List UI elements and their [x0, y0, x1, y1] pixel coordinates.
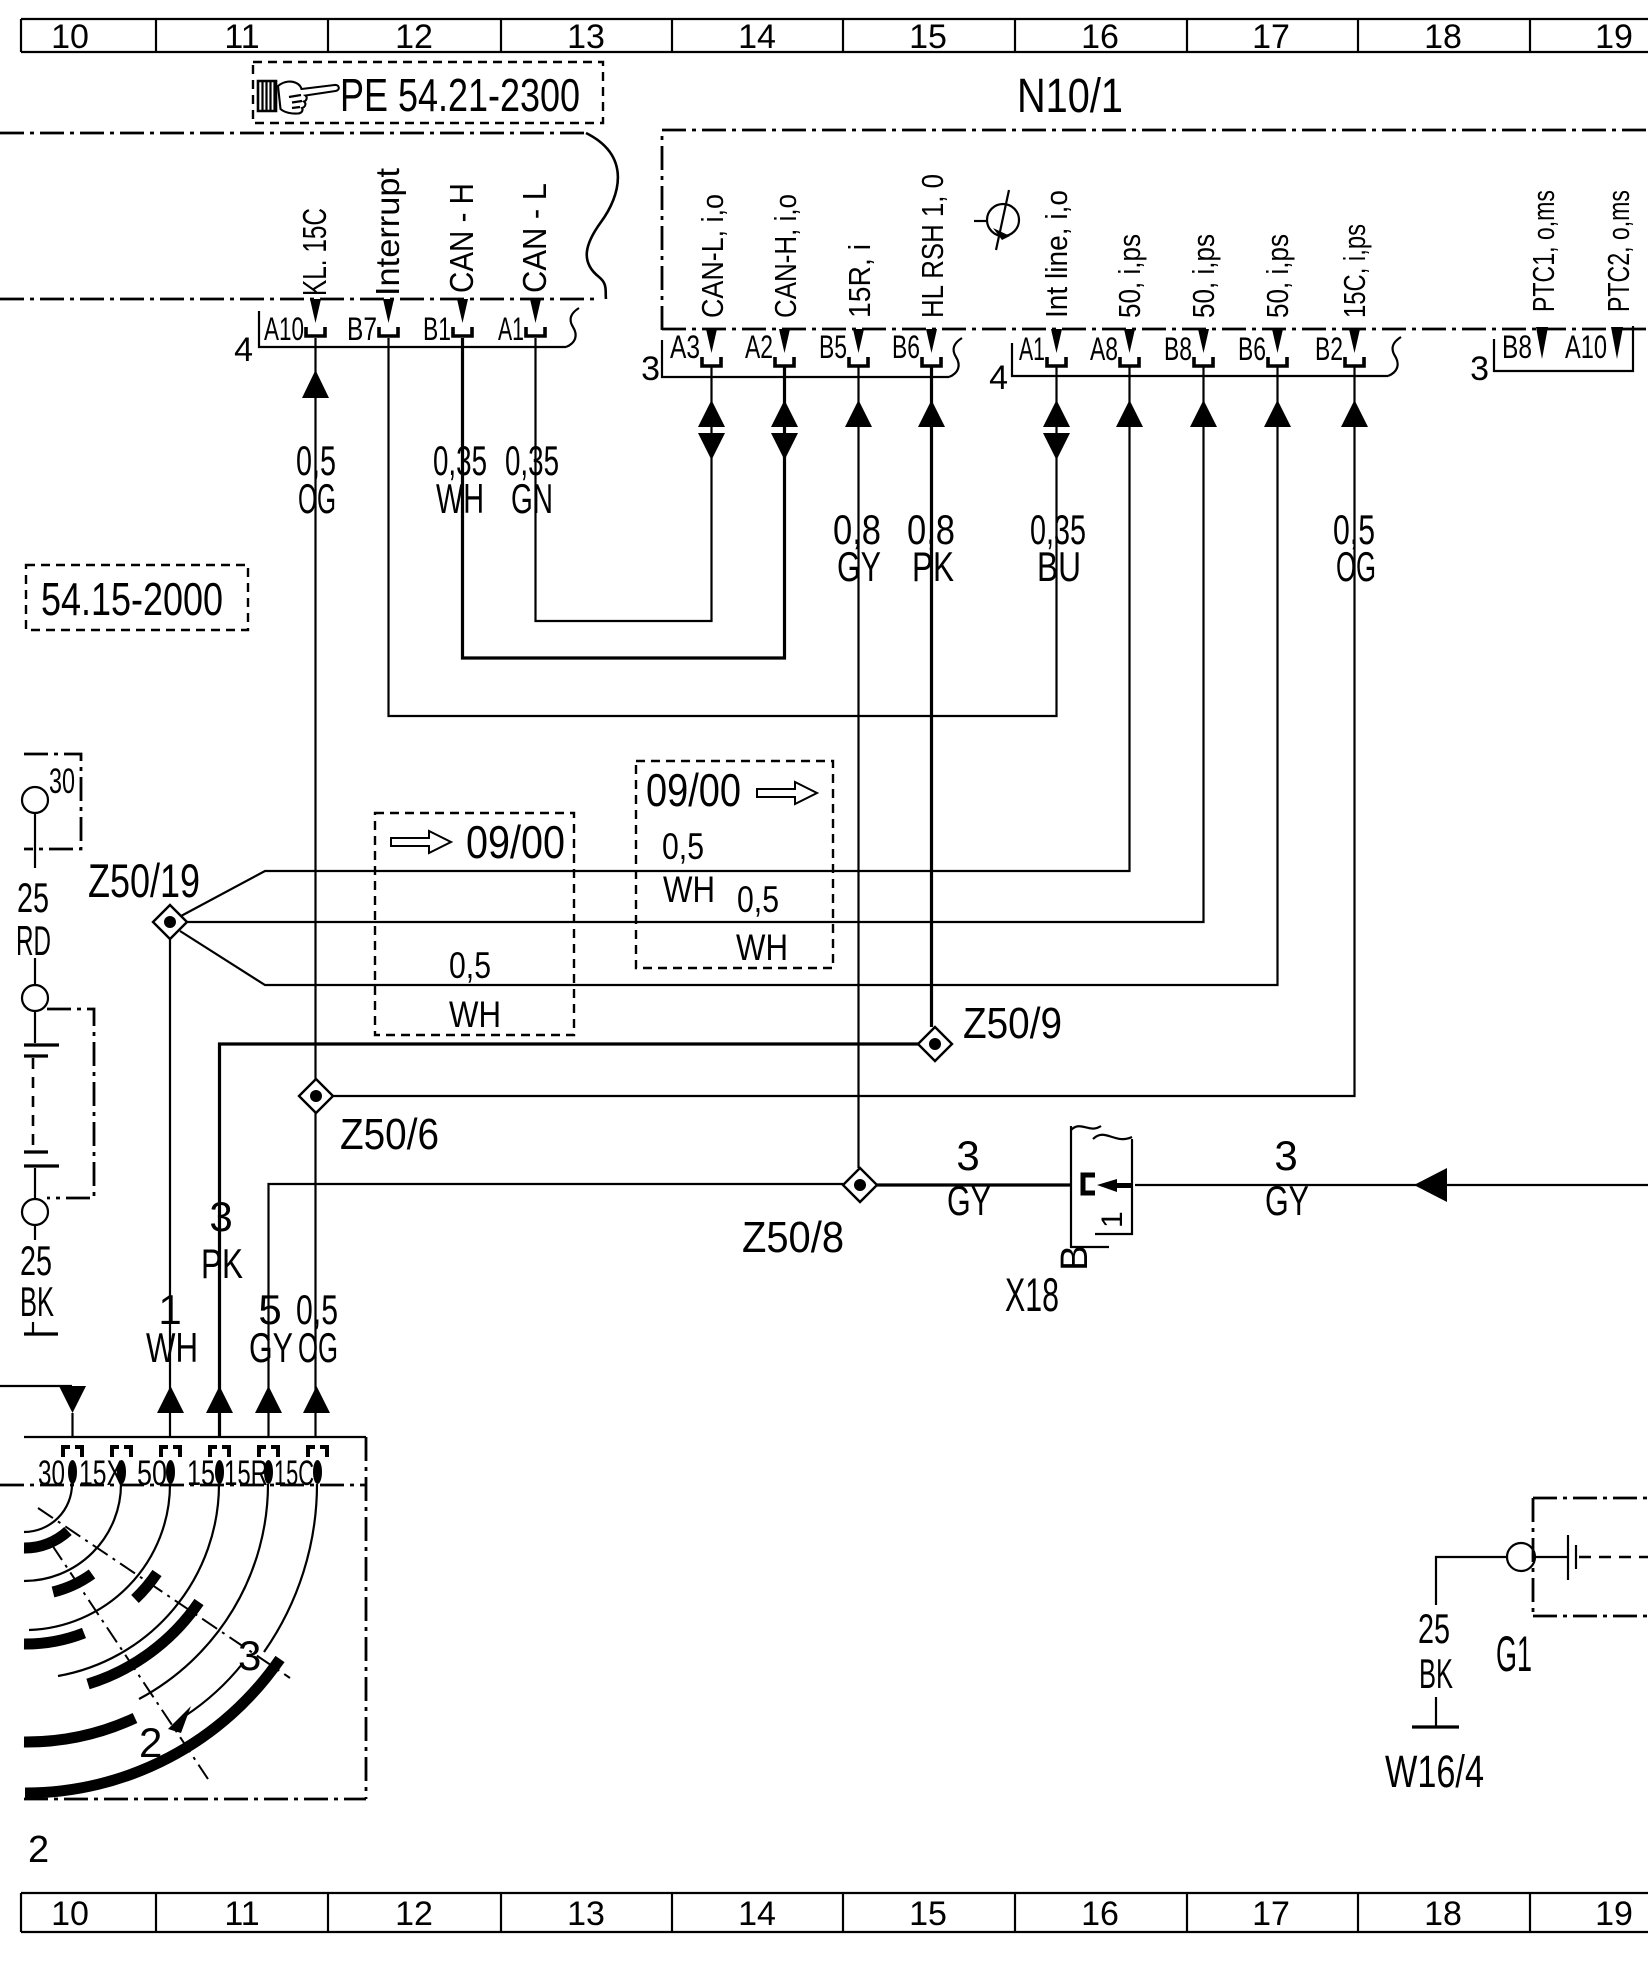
- ignition switch thin contact arcs: [24, 1484, 317, 1699]
- svg-text:1: 1: [1096, 1211, 1129, 1228]
- svg-text:Z50/9: Z50/9: [963, 999, 1062, 1048]
- suppressor capacitor element (left edge): [24, 1011, 59, 1199]
- ignition switch thick contact segments: [24, 1531, 280, 1793]
- svg-text:12: 12: [395, 18, 433, 56]
- terminal circle 30: [22, 787, 48, 813]
- left module torn border (dash-dot): [0, 133, 618, 299]
- svg-text:18: 18: [1424, 1895, 1462, 1933]
- pin A1 (left connector): [498, 299, 545, 347]
- svg-text:25: 25: [20, 1237, 52, 1284]
- pin B1 (left connector): [423, 299, 472, 347]
- ignition pin 15X: [79, 1447, 131, 1493]
- wire label 0,8 GY: [833, 506, 881, 590]
- svg-text:A3: A3: [670, 329, 700, 365]
- pin B6: [892, 329, 941, 366]
- svg-text:15R, i: 15R, i: [842, 244, 877, 318]
- ignition switch position dash-dot radials: [38, 1508, 290, 1779]
- svg-text:W16/4: W16/4: [1385, 1746, 1484, 1797]
- wire 3 GY : X18 to right edge: [1135, 1168, 1648, 1202]
- svg-text:GY: GY: [837, 543, 881, 590]
- svg-text:A10: A10: [1565, 329, 1607, 365]
- svg-text:HL RSH 1, 0: HL RSH 1, 0: [915, 174, 950, 318]
- svg-text:16: 16: [1081, 1895, 1119, 1933]
- left connector group 4 (A10 B7 B1 A1): [234, 308, 579, 369]
- svg-text:18: 18: [1424, 18, 1462, 56]
- wire label 0,35 WH: [433, 437, 487, 522]
- pin A1 (N10/1): [1019, 329, 1066, 367]
- svg-text:CAN-L, i,o: CAN-L, i,o: [695, 194, 730, 318]
- ignition position 2 label: [139, 1719, 162, 1766]
- svg-text:3: 3: [238, 1632, 261, 1679]
- svg-text:10: 10: [51, 1895, 89, 1933]
- svg-text:2: 2: [139, 1719, 162, 1766]
- svg-text:KL. 15C: KL. 15C: [296, 208, 333, 296]
- wire 50 (B8) : down, left at y922 to Z50/19: [187, 365, 1217, 922]
- change note box 09/00 (left): [375, 813, 574, 1035]
- feed wire into ignition pin 30: [0, 1386, 86, 1437]
- svg-text:3: 3: [956, 1132, 979, 1179]
- pointing hand icon: [258, 81, 339, 114]
- svg-text:PK: PK: [201, 1240, 243, 1287]
- wire 25 RD (left edge): [34, 813, 36, 986]
- svg-text:B7: B7: [347, 311, 377, 347]
- wire Interrupt : B7 down, right at y716, up to A1: [389, 338, 1057, 716]
- svg-text:4: 4: [989, 359, 1008, 397]
- pin A8: [1090, 329, 1139, 367]
- N10/1 connector group 3 right (B8 A10): [1470, 326, 1633, 388]
- pin A10 (PTC2): [1565, 327, 1623, 365]
- svg-text:CAN-H, i,o: CAN-H, i,o: [768, 194, 803, 318]
- svg-text:0,5: 0,5: [449, 945, 491, 986]
- svg-text:B8: B8: [1502, 329, 1532, 365]
- svg-text:A8: A8: [1090, 331, 1118, 367]
- svg-text:14: 14: [738, 1895, 776, 1933]
- wire label 0,5 OG (right): [1333, 506, 1376, 590]
- svg-text:3: 3: [1470, 350, 1489, 388]
- svg-text:OG: OG: [1336, 543, 1376, 590]
- svg-text:54.15-2000: 54.15-2000: [41, 573, 223, 625]
- svg-text:A1: A1: [498, 311, 524, 347]
- svg-text:CAN - L: CAN - L: [516, 183, 553, 293]
- A2 double direction arrows: [771, 400, 798, 460]
- svg-text:N10/1: N10/1: [1017, 70, 1123, 123]
- A3 double direction arrows: [698, 400, 725, 460]
- wire label 0,8 PK: [907, 506, 955, 590]
- svg-text:3: 3: [209, 1193, 232, 1240]
- svg-text:3: 3: [641, 350, 660, 388]
- svg-text:09/00: 09/00: [466, 816, 565, 868]
- svg-text:BK: BK: [20, 1278, 54, 1325]
- wire label 25 BK (left edge): [20, 1237, 54, 1325]
- svg-text:2: 2: [28, 1829, 49, 1871]
- splice Z50/6: [299, 1079, 439, 1159]
- ignition pin 15C: [274, 1447, 327, 1493]
- suppressor dash-dot bracket: [47, 1009, 94, 1198]
- pin A10 (left connector): [264, 299, 325, 347]
- svg-text:BK: BK: [1419, 1650, 1453, 1697]
- svg-text:0,5: 0,5: [662, 826, 704, 867]
- svg-text:14: 14: [738, 18, 776, 56]
- wire 5 GY : ignition pin 15R up, right at y1184 to Z50/8: [255, 1184, 843, 1437]
- svg-text:GY: GY: [947, 1177, 991, 1224]
- terminal 31 stub (left edge): [24, 1322, 58, 1334]
- svg-text:09/00: 09/00: [646, 764, 741, 816]
- svg-text:X18: X18: [1005, 1268, 1059, 1321]
- svg-text:15R: 15R: [224, 1454, 268, 1493]
- svg-text:OG: OG: [298, 1324, 338, 1371]
- svg-text:G1: G1: [1496, 1626, 1532, 1682]
- wire 3 GY : Z50/8 to connector X18: [877, 1183, 1071, 1186]
- svg-text:50, i,ps: 50, i,ps: [1112, 234, 1147, 318]
- svg-text:PK: PK: [912, 543, 954, 590]
- svg-text:17: 17: [1252, 1895, 1290, 1933]
- splice Z50/8: [742, 1168, 877, 1262]
- svg-text:PTC2, o,ms: PTC2, o,ms: [1601, 190, 1636, 312]
- svg-text:RD: RD: [16, 917, 51, 964]
- N10/1 connector group 3 (A3 A2 B5 B6): [641, 338, 962, 388]
- svg-text:10: 10: [51, 18, 89, 56]
- svg-text:CAN - H: CAN - H: [443, 183, 480, 293]
- pin B7 (left connector): [347, 299, 398, 347]
- pin B8 (PTC1): [1502, 327, 1548, 365]
- connector X18: [1005, 1126, 1132, 1321]
- wire 50 (A8) : down, left at y871 to Z50/19: [181, 365, 1143, 916]
- svg-text:25: 25: [1418, 1605, 1450, 1652]
- svg-text:WH: WH: [146, 1324, 198, 1371]
- svg-text:4: 4: [234, 331, 253, 369]
- svg-text:Interrupt: Interrupt: [369, 168, 406, 296]
- svg-text:GY: GY: [1265, 1177, 1309, 1224]
- page item number 2: [28, 1829, 49, 1871]
- svg-text:30: 30: [38, 1454, 65, 1493]
- wire CAN-L 0,35 GN : A1 down, right at y621, up to A3: [536, 338, 712, 621]
- svg-text:B5: B5: [819, 329, 847, 365]
- svg-text:BU: BU: [1037, 543, 1081, 590]
- X18 pin 1 socket and plug arrow: [1083, 1175, 1133, 1193]
- terminal circle (suppressor bottom): [22, 1199, 48, 1240]
- wire 3 PK : ignition pin 15 up, right at y1044 to Z50/9: [206, 1044, 918, 1437]
- splice Z50/19: [88, 854, 200, 939]
- control unit N10/1 label: [1017, 70, 1123, 123]
- ignition pin 15: [187, 1447, 229, 1493]
- wire HL RSH 0,8 PK : B6 down to Z50/9: [918, 365, 945, 1027]
- wire 15C 0,5 OG (B2) : down, left at y1096 to Z50/6: [333, 365, 1368, 1096]
- wire label 0,35 GN: [505, 437, 559, 522]
- svg-text:13: 13: [567, 18, 605, 56]
- svg-text:50: 50: [137, 1454, 167, 1493]
- left edge fuse 30 terminal box: [24, 754, 81, 849]
- wire label 3 GY (right): [1265, 1132, 1309, 1224]
- N10/1 connector group 4 (A1 A8 B8 B6 B2): [989, 337, 1401, 397]
- top ruler numbers: [51, 18, 1633, 56]
- pin B2: [1315, 329, 1364, 367]
- svg-text:12: 12: [395, 1895, 433, 1933]
- wire label 3 GY (left): [947, 1132, 991, 1224]
- N10/1 rotated pin-function labels: [695, 174, 1636, 318]
- bottom ruler grid: [21, 1893, 1648, 1932]
- N10/1 module border (dash-dot): [662, 130, 1648, 330]
- PE reference box PE 54.21-2300: [253, 62, 603, 123]
- wire label 0,5 OG (ignition 15C): [296, 1286, 338, 1371]
- svg-text:0,5: 0,5: [737, 879, 779, 920]
- svg-text:17: 17: [1252, 18, 1290, 56]
- wire 50 (B6) : down, left at y985 to Z50/19: [180, 365, 1291, 985]
- svg-text:GY: GY: [249, 1324, 293, 1371]
- svg-text:WH: WH: [663, 869, 715, 910]
- svg-text:15C, i,ps: 15C, i,ps: [1337, 224, 1372, 318]
- wire label 0,35 BU (Int line): [1030, 506, 1086, 590]
- wire KL.15C 0,5 OG : A10 to Z50/6 to ignition 15C: [302, 338, 330, 1437]
- svg-text:15C: 15C: [274, 1454, 314, 1493]
- wire label 25 RD: [16, 874, 51, 964]
- ignition rotation arrow with position 3: [168, 1632, 261, 1733]
- change note box 09/00 (right): [636, 761, 833, 968]
- ignition starter switch S2/1 frame: [0, 1437, 366, 1799]
- svg-text:OG: OG: [298, 475, 336, 522]
- N10/1 rotation symbol: [974, 190, 1019, 250]
- pin B5: [819, 329, 868, 366]
- svg-text:15X: 15X: [79, 1454, 123, 1493]
- svg-text:B1: B1: [423, 311, 451, 347]
- ground W16/4: [1385, 1727, 1484, 1797]
- svg-text:B: B: [1054, 1245, 1096, 1271]
- svg-text:Int line, i,o: Int line, i,o: [1039, 190, 1074, 318]
- terminal circle (suppressor top): [22, 985, 48, 1011]
- svg-text:19: 19: [1595, 1895, 1633, 1933]
- bottom ruler numbers: [51, 1895, 1633, 1933]
- svg-text:B2: B2: [1315, 331, 1343, 367]
- svg-text:Z50/8: Z50/8: [742, 1213, 844, 1262]
- pin B8: [1164, 329, 1213, 367]
- pin B6 (N10/1 group 4): [1238, 329, 1287, 367]
- svg-text:Z50/6: Z50/6: [340, 1110, 439, 1159]
- wire CAN-H 0,35 WH : B1 down, right at y658, up to A2: [463, 338, 785, 658]
- svg-text:11: 11: [224, 18, 259, 56]
- svg-text:11: 11: [224, 1895, 259, 1933]
- wire 1 WH : Z50/19 down to ignition pin 50: [157, 939, 184, 1437]
- svg-text:B8: B8: [1164, 331, 1192, 367]
- svg-text:13: 13: [567, 1895, 605, 1933]
- svg-text:PE 54.21-2300: PE 54.21-2300: [340, 69, 580, 121]
- pin A3: [670, 329, 721, 366]
- wire 25 BK : battery to ground: [1436, 1557, 1507, 1726]
- A1 double direction arrows: [1043, 400, 1070, 460]
- wire label 5 GY: [249, 1286, 293, 1371]
- wire label 3 PK: [201, 1193, 243, 1287]
- pin A2: [745, 329, 794, 366]
- svg-text:15: 15: [909, 1895, 947, 1933]
- svg-text:19: 19: [1595, 18, 1633, 56]
- svg-text:25: 25: [17, 874, 49, 921]
- svg-text:PTC1, o,ms: PTC1, o,ms: [1526, 190, 1561, 312]
- svg-text:A1: A1: [1019, 331, 1045, 367]
- svg-text:WH: WH: [449, 994, 501, 1035]
- svg-text:WH: WH: [436, 475, 484, 522]
- wire label 0,5 OG (top): [296, 437, 336, 522]
- ignition pin 50: [137, 1447, 180, 1493]
- wire label 25 BK (battery): [1418, 1605, 1453, 1697]
- svg-text:3: 3: [1274, 1132, 1297, 1179]
- svg-text:Z50/19: Z50/19: [88, 854, 200, 907]
- svg-text:GN: GN: [511, 475, 553, 522]
- svg-text:WH: WH: [736, 927, 788, 968]
- ignition pin 30: [38, 1447, 82, 1493]
- ignition pin 15R: [224, 1447, 278, 1493]
- splice Z50/9: [918, 999, 1062, 1061]
- wire 15R 0,8 GY : B5 down to Z50/8: [845, 365, 872, 1168]
- svg-text:15: 15: [187, 1454, 215, 1493]
- svg-text:30: 30: [49, 762, 75, 801]
- svg-text:50, i,ps: 50, i,ps: [1260, 234, 1295, 318]
- left connector rotated signal labels: [296, 168, 553, 296]
- wire label 1 WH: [146, 1286, 198, 1371]
- battery G1 dash-dot box: [1496, 1498, 1648, 1682]
- top ruler grid: [21, 19, 1648, 52]
- svg-text:A2: A2: [745, 329, 773, 365]
- svg-text:B6: B6: [892, 329, 920, 365]
- battery G1 cell symbol: [1507, 1535, 1648, 1580]
- reference box 54.15-2000: [26, 565, 248, 630]
- svg-text:15: 15: [909, 18, 947, 56]
- svg-text:A10: A10: [264, 311, 304, 347]
- svg-text:16: 16: [1081, 18, 1119, 56]
- svg-text:B6: B6: [1238, 331, 1266, 367]
- svg-text:50, i,ps: 50, i,ps: [1186, 234, 1221, 318]
